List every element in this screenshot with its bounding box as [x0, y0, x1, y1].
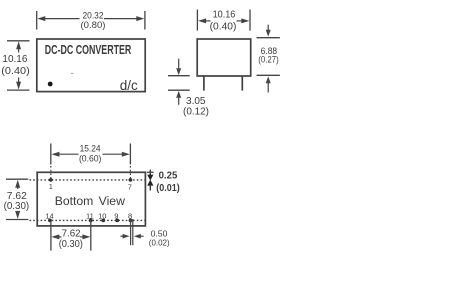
svg-text:20.32: 20.32	[83, 11, 104, 21]
svg-text:(0.80): (0.80)	[81, 20, 106, 30]
label Bottom View	[55, 194, 125, 208]
dimension 7.62 (0.30) bottom pin spacing	[51, 220, 91, 250]
top view outline	[37, 39, 145, 92]
svg-text:0.50: 0.50	[151, 230, 168, 239]
svg-text:(0.01): (0.01)	[156, 183, 180, 194]
svg-text:0.25: 0.25	[159, 171, 178, 182]
dimension 10.16 (0.40) left of top view	[1, 41, 30, 90]
svg-text:(0.30): (0.30)	[59, 238, 83, 250]
dimension 15.24 (0.60) top of bottom view	[51, 144, 131, 180]
svg-text:14: 14	[45, 212, 53, 221]
svg-text:10.16: 10.16	[2, 54, 27, 65]
dimension 6.88 (0.27) right of side view	[257, 25, 280, 93]
dimension 10.16 (0.40) top of side view	[197, 10, 250, 33]
svg-text:(0.40): (0.40)	[1, 66, 30, 77]
side view left pin	[203, 76, 205, 91]
pin 1	[49, 178, 53, 191]
svg-text:(0.27): (0.27)	[258, 54, 279, 64]
pin 10	[98, 212, 106, 223]
pin row 8-14 dotted line	[30, 219, 145, 221]
svg-text:(0.60): (0.60)	[79, 154, 102, 164]
svg-text:10.16: 10.16	[213, 10, 236, 21]
svg-text:1: 1	[49, 182, 53, 191]
dimension 0.25 (0.01) right of bottom view	[147, 170, 180, 194]
bottom view outline	[37, 172, 145, 226]
pin 9	[114, 212, 119, 223]
dimension 20.32 (0.80) top of top view	[37, 11, 145, 31]
pin 11	[86, 212, 94, 223]
dimension 7.62 (0.30) left of bottom view	[4, 179, 30, 219]
pin 1 index dot	[48, 82, 53, 87]
faint mark inside top view	[71, 73, 74, 74]
svg-text:d/c: d/c	[120, 78, 138, 93]
svg-text:(0.40): (0.40)	[210, 22, 237, 33]
dimension 0.50 (0.02) pin width	[120, 219, 170, 248]
pin row 1-7 dotted line	[30, 179, 145, 181]
logo d/c	[120, 78, 138, 93]
pin 7	[128, 178, 133, 192]
svg-text:7: 7	[128, 183, 132, 192]
svg-text:9: 9	[114, 212, 118, 221]
svg-text:(0.30): (0.30)	[4, 200, 30, 212]
pin 8	[128, 212, 132, 223]
svg-text:DC-DC CONVERTER: DC-DC CONVERTER	[45, 42, 132, 57]
svg-text:11: 11	[86, 212, 94, 221]
svg-text:Bottom View: Bottom View	[55, 194, 125, 208]
side view right pin	[241, 76, 243, 91]
dimension 3.05 (0.12) pin length of side view	[168, 59, 209, 118]
svg-text:(0.12): (0.12)	[183, 106, 209, 118]
label DC-DC CONVERTER	[45, 42, 132, 57]
svg-text:(0.02): (0.02)	[149, 239, 170, 248]
svg-text:15.24: 15.24	[80, 144, 101, 154]
pin 14	[45, 212, 53, 223]
svg-text:10: 10	[98, 212, 106, 221]
side view outline	[197, 39, 251, 76]
